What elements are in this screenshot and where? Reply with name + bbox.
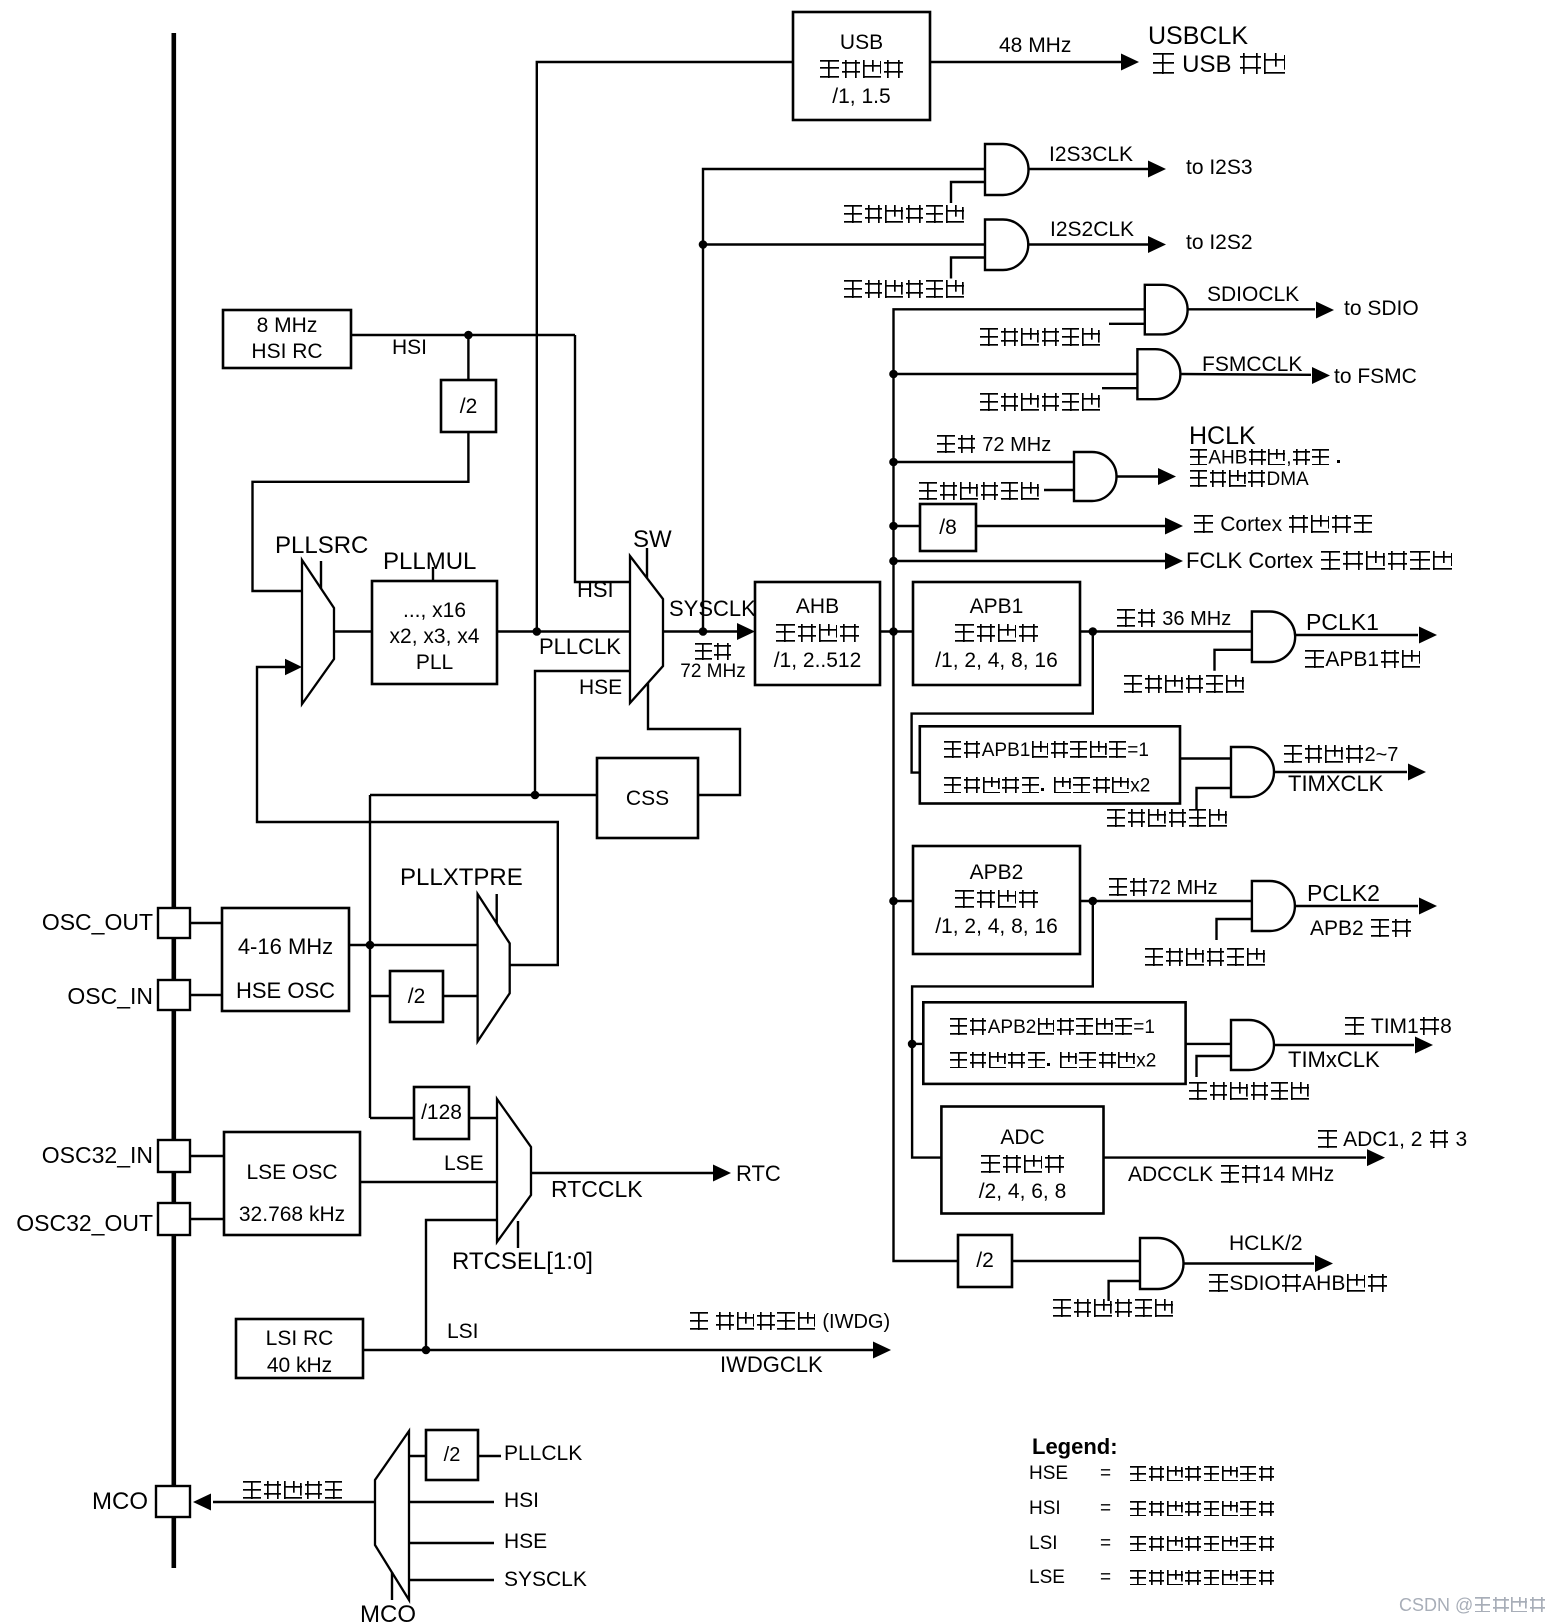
label: LSI RC box text: [236, 1325, 363, 1379]
node: HSE OSC output junction: [366, 941, 375, 950]
arrow: to ADC1 2 or 3: [1367, 1149, 1385, 1166]
label: ADC prescaler box text: [941, 1124, 1104, 1205]
label: peripheral clock enable I2S3: [843, 204, 965, 228]
wire: HSI down to SW mux: [575, 335, 630, 582]
label: PLL box text: [372, 598, 497, 676]
wire: stub into APB2 note box: [912, 1043, 923, 1045]
wire: MCO mux SYSCLK input: [409, 1579, 494, 1581]
box: ADC prescaler: [941, 1107, 1103, 1214]
wire: HCLK enable input: [1044, 489, 1074, 491]
label: max 72 MHz SYSCLK: [663, 642, 763, 664]
wire: HSE into SW mux: [535, 671, 630, 795]
wire: PCLK2 enable input: [1217, 919, 1252, 940]
node: APB2 note box junction: [908, 1040, 917, 1049]
label: PLLXTPRE: [400, 864, 523, 892]
arrow: SYSCLK into AHB prescaler: [737, 623, 755, 640]
wire: MCO select tick: [391, 1572, 393, 1600]
arrow: IWDGCLK to IWDG: [873, 1342, 891, 1359]
box: /2 divider SDIO AHB: [958, 1235, 1012, 1287]
wire: SDIO enable input: [1109, 323, 1145, 325]
wire: I2S2CLK output: [1029, 243, 1149, 245]
label: to TIM1 and 8: [1344, 1015, 1452, 1040]
wire: I2S3 enable input: [951, 182, 985, 203]
wire: TIMXCLK output: [1274, 771, 1407, 773]
pin: OSC_OUT: [158, 908, 190, 938]
wire: APB1 output to TIMXCLK note box: [912, 632, 1093, 773]
label: RTCSEL[1:0]: [452, 1248, 593, 1276]
label: HSE SW input: [579, 676, 622, 701]
arrow: USBCLK to USB interface: [1121, 54, 1139, 71]
label: MCO pin: [92, 1488, 148, 1516]
label: MCO mux select: [360, 1601, 416, 1622]
gate: PCLK2 enable AND: [1252, 881, 1295, 931]
box: APB1 frequency x2 note: [920, 726, 1180, 803]
label: to SDIO: [1344, 297, 1419, 322]
label: I2S3CLK: [1049, 143, 1133, 168]
node: HSE-CSS junction: [531, 791, 540, 800]
label: PCLK1: [1306, 609, 1379, 636]
wire: /2 to PLLCLK label: [478, 1455, 501, 1457]
label: OSC32_OUT: [16, 1210, 153, 1237]
label: to ADC1 2 or 3: [1317, 1128, 1467, 1153]
label: APB1 prescaler box text: [913, 593, 1080, 674]
label: PLLMUL: [383, 548, 476, 576]
mux: RTCSEL: [497, 1099, 531, 1242]
wire: PCLK2 output: [1295, 905, 1418, 907]
wire: APB1 note box to TIMXCLK gate: [1180, 757, 1231, 759]
wire: OSC32_OUT pin to LSE OSC: [190, 1218, 224, 1220]
label: AHB prescaler box text: [755, 593, 880, 674]
wire: I2S2 gate clock branch: [703, 243, 985, 245]
arrow: MCO output to pin: [193, 1494, 211, 1511]
label: /8 divider text: [920, 515, 976, 541]
label: Legend: [1032, 1434, 1118, 1460]
node: LSI junction: [422, 1346, 431, 1355]
wire: APB2 output down to note box and ADC prescaler: [912, 901, 1093, 1158]
gate: TIMXCLK APB1 timer enable AND: [1231, 747, 1274, 797]
box: /128 divider RTC: [414, 1087, 469, 1139]
label: HSI: [392, 336, 427, 361]
gate: SDIO AHB interface enable AND: [1140, 1238, 1184, 1289]
wire: RTCSEL select tick: [517, 1221, 519, 1248]
arrow: to I2S2: [1148, 236, 1166, 253]
wire: SYSCLK SW mux output to AHB prescaler: [663, 630, 740, 632]
wire: MCO mux HSI input: [409, 1501, 494, 1503]
label: /128 divider text: [414, 1100, 469, 1126]
node: FCLK branch junction: [889, 557, 898, 566]
mux: SW system clock switch: [630, 556, 663, 703]
box: APB2 prescaler: [913, 846, 1080, 954]
wire: PCLK1 enable input: [1215, 650, 1252, 671]
node: HSI junction to /2: [464, 331, 473, 340]
label: peripheral clock enable SDIO AHB: [1052, 1298, 1174, 1322]
wire: HSE branch to /2 PLLXTPRE divider: [370, 995, 390, 997]
wire: PLLMUL select tick: [432, 567, 434, 581]
label: peripheral clock enable FSMC: [979, 392, 1101, 416]
wire: TIMxCLK output: [1274, 1044, 1414, 1046]
label: peripheral clock enable SDIO: [979, 327, 1101, 351]
label: FSMCCLK: [1202, 353, 1302, 378]
wire: OSC_IN pin to HSE OSC: [190, 994, 222, 996]
label: peripheral clock enable HCLK: [918, 481, 1040, 505]
arrow: HCLK to AHB bus core memory DMA: [1158, 468, 1176, 485]
wire: PLLXTPRE mux output to PLLSRC mux: [257, 667, 558, 965]
wire: HCLK output: [1117, 475, 1158, 477]
gate: FSMC clock enable AND: [1137, 349, 1180, 399]
arrow: PCLK2 to APB2 peripherals: [1419, 898, 1437, 915]
wire: OSC_OUT pin to HSE OSC: [190, 922, 222, 924]
label: HSE MCO input: [504, 1530, 547, 1555]
label: HSI SW input: [577, 577, 614, 603]
label: CSDN watermark: [1399, 1595, 1547, 1616]
box: /8 divider Cortex systick: [920, 504, 976, 551]
wire: APB2 note box to TIMxCLK gate: [1186, 1043, 1231, 1045]
mux: PLLSRC: [302, 560, 334, 704]
arrow: RTCCLK to RTC: [713, 1165, 731, 1182]
label: OSC32_IN: [42, 1142, 153, 1169]
wire: HCLK gate clock: [894, 461, 1075, 463]
label: to IWDG: [689, 1311, 890, 1335]
box: USB prescaler: [793, 12, 930, 120]
wire: I2S2 enable input: [951, 258, 985, 279]
wire: /8 divider output to Cortex: [976, 525, 1165, 527]
wire: HCLK/2 output: [1183, 1262, 1314, 1264]
wire: LSI RC output to IWDG: [363, 1349, 873, 1351]
wire: HSE to CSS: [370, 794, 597, 796]
arrow: to FSMC: [1312, 367, 1330, 384]
label: LSI: [447, 1320, 479, 1345]
label: to I2S3: [1186, 156, 1253, 181]
wire: /2 divider to PLLXTPRE mux: [443, 995, 478, 997]
label: peripheral clock enable I2S2: [843, 279, 965, 303]
wire: /128 divider output to RTCSEL mux: [469, 1117, 497, 1119]
wire: /2 divider to SDIO AHB gate: [1012, 1260, 1140, 1262]
wire: HCLK distribution bus: [894, 309, 1145, 1261]
mux: MCO clock output mux: [375, 1431, 409, 1600]
box: LSE oscillator 32.768 kHz: [224, 1132, 360, 1235]
label: PLLSRC: [275, 532, 368, 560]
wire: LSI to RTCSEL mux: [426, 1220, 497, 1350]
wire: TIMxCLK enable input: [1197, 1056, 1232, 1077]
wire: OSC32_IN pin to LSE OSC: [190, 1155, 224, 1157]
label: 48 MHz: [999, 34, 1071, 59]
wire: APB2 output to PCLK2 gate: [1080, 900, 1252, 902]
box: APB2 frequency x2 note: [923, 1002, 1185, 1084]
box: /2 divider PLLXTPRE: [390, 971, 443, 1022]
wire: AHB prescaler to APB1 prescaler: [880, 630, 913, 632]
label: USB prescaler box text: [793, 29, 930, 110]
box: 8 MHz HSI RC oscillator: [223, 310, 351, 368]
wire: TIMXCLK enable input: [1197, 788, 1232, 809]
wire: RTCCLK output: [531, 1172, 713, 1174]
wire: HSE vertical from HSE OSC: [369, 795, 371, 1118]
label: ADCCLK max 14 MHz: [1128, 1163, 1334, 1188]
label: HCLK to AHB bus core memory and DMA: [1189, 422, 1256, 452]
label: LSE: [444, 1152, 484, 1177]
wire: PLLSRC select tick: [320, 561, 322, 589]
wire: LSE output to RTCSEL mux: [360, 1181, 497, 1183]
wire: HSI to /2 divider: [467, 335, 469, 380]
gate: TIMxCLK TIM1 TIM8 enable AND: [1231, 1020, 1274, 1070]
wire: ADC prescaler output: [1104, 1156, 1367, 1158]
node: PLLCLK junction to USB: [533, 627, 542, 636]
label: peripheral clock enable PCLK1: [1123, 674, 1245, 698]
wire: PLLCLK feed to USB prescaler: [537, 62, 793, 632]
label: APB1 note box text: [943, 740, 1149, 762]
label: PCLK2: [1307, 880, 1380, 907]
label: USBCLK to USB interface: [1148, 22, 1248, 52]
wire: SW mux to CSS link: [648, 683, 740, 795]
label: RTC: [736, 1161, 781, 1187]
wire: HSE branch to /128 divider: [370, 1117, 414, 1119]
label: max 72 MHz APB2: [1108, 877, 1218, 901]
box: /2 divider MCO PLLCLK: [426, 1430, 478, 1480]
node: I2S2 branch junction: [699, 240, 708, 249]
node: AHB output junction on bus: [889, 627, 898, 636]
label: to APB1 peripherals: [1304, 648, 1422, 673]
label: APB2 note box text: [949, 1017, 1155, 1039]
label: SW: [633, 526, 672, 554]
label: IWDGCLK: [720, 1352, 823, 1378]
arrow: to I2S3: [1148, 161, 1166, 178]
wire: USB prescaler output 48 MHz: [930, 61, 1121, 63]
label: FCLK Cortex free running clock: [1186, 548, 1454, 574]
label: TIMxCLK: [1288, 1047, 1380, 1073]
wire: PLLCLK PLL output to SW mux: [497, 630, 630, 632]
wire: SYSCLK feed to I2S gates: [703, 169, 985, 632]
label: I2S2CLK: [1050, 218, 1134, 243]
gate: I2S3 clock enable AND: [985, 144, 1029, 195]
arrow: to timers 2-7: [1408, 764, 1426, 781]
wire: SW select tick: [646, 548, 648, 578]
label: to FSMC: [1334, 365, 1417, 390]
gate: PCLK1 enable AND: [1252, 612, 1295, 663]
box: APB1 prescaler: [913, 582, 1080, 685]
label: APB2 prescaler box text: [913, 859, 1080, 940]
wire: HCLK to APB2 prescaler: [894, 900, 914, 902]
label: to timers 2~7 TIMXCLK: [1283, 744, 1398, 768]
label: to Cortex system timer: [1193, 513, 1374, 538]
label: CSS box text: [597, 786, 698, 812]
wire: APB1 output to PCLK1 gate: [1080, 630, 1252, 632]
label: /2 divider MCO text: [426, 1443, 478, 1468]
wire: HCLK to /8 divider: [894, 525, 921, 527]
wire: left device boundary bus: [172, 33, 177, 1568]
wire: HSI output of HSI RC: [351, 334, 575, 336]
label: SDIOCLK: [1207, 283, 1299, 308]
box: /2 divider HSI: [441, 380, 496, 432]
wire: SDIO AHB enable input: [1109, 1281, 1140, 1301]
wire: HSE OSC output: [349, 944, 478, 946]
arrow: to TIM1 and TIM8: [1415, 1037, 1433, 1054]
label: to I2S2: [1186, 231, 1253, 256]
wire: PLLSRC mux output to PLL: [334, 630, 372, 632]
wire: MCO output line: [213, 1501, 375, 1503]
label: max 72 MHz AHB: [936, 434, 1051, 458]
label: OSC_OUT: [42, 909, 153, 936]
node: SYSCLK junction: [699, 627, 708, 636]
wire: MCO mux HSE input: [409, 1542, 494, 1544]
label: PLLCLK SW input: [539, 634, 621, 660]
gate: SDIO clock enable AND: [1145, 285, 1188, 335]
wire: I2S3CLK output: [1029, 168, 1149, 170]
label: SYSCLK: [669, 596, 756, 622]
label: 8 MHz HSI RC box text: [223, 313, 351, 365]
box: 4-16 MHz HSE oscillator: [222, 908, 349, 1011]
arrow: HCLK/2 to SDIO AHB interface: [1315, 1255, 1333, 1272]
arrow: PCLK1 to APB1 peripherals: [1419, 627, 1437, 644]
mux: PLLXTPRE: [478, 894, 510, 1041]
label: SYSCLK MCO input: [504, 1568, 587, 1593]
label: /2 divider HSI text: [441, 394, 496, 420]
box: CSS clock security system: [597, 758, 698, 838]
label: OSC_IN: [67, 983, 153, 1010]
pin: OSC32_IN: [158, 1140, 190, 1172]
label: /2 divider SDIO text: [958, 1248, 1012, 1274]
label: APB2 peripherals: [1310, 917, 1412, 942]
node: APB2 output junction: [1089, 897, 1098, 906]
label: 4-16 MHz HSE OSC box text: [222, 925, 349, 1013]
wire: FSMCCLK output: [1180, 373, 1311, 376]
label: LSE OSC box text: [224, 1152, 360, 1236]
gate: I2S2 clock enable AND: [985, 220, 1028, 271]
arrow: PLLSRC HSE input: [285, 659, 302, 675]
label: HCLK/2: [1229, 1232, 1303, 1257]
wire: FSMC enable input: [1102, 387, 1137, 389]
wire: SDIOCLK output: [1188, 308, 1315, 310]
wire: PLLXTPRE select tick: [496, 894, 498, 923]
wire: PCLK1 output: [1295, 634, 1418, 636]
label: main clock output: [242, 1480, 344, 1504]
pin: OSC32_OUT: [158, 1203, 190, 1235]
node: APB2 branch junction: [889, 897, 898, 906]
label: to SDIO AHB interface: [1208, 1272, 1388, 1297]
pin: MCO: [156, 1486, 190, 1517]
label: max 36 MHz: [1116, 608, 1231, 632]
pin: OSC_IN: [158, 980, 190, 1010]
label: peripheral clock enable PCLK2: [1144, 947, 1266, 971]
label: HSI MCO input: [504, 1489, 539, 1514]
arrow: to SDIO: [1316, 302, 1334, 319]
label: peripheral clock enable TIMXCLK: [1106, 808, 1228, 832]
label: /2 divider PLLXTPRE text: [390, 984, 443, 1010]
arrow: FCLK Cortex: [1165, 553, 1183, 570]
box: AHB prescaler: [755, 582, 880, 685]
wire: /2 divider output to PLLSRC mux: [253, 432, 469, 591]
wire: MCO mux PLLCLK/2 input: [409, 1455, 426, 1457]
arrow: to Cortex system timer: [1165, 518, 1183, 535]
node: FSMC branch junction: [889, 370, 898, 379]
wire: FCLK Cortex line: [894, 560, 1166, 562]
node: HCLK gate branch junction: [889, 458, 898, 467]
box: LSI RC oscillator 40 kHz: [236, 1319, 363, 1378]
wire: FSMC gate clock: [894, 373, 1138, 375]
node: /8 branch junction: [889, 522, 898, 531]
label: RTCCLK: [551, 1176, 643, 1203]
label: peripheral clock enable TIMxCLK: [1188, 1081, 1310, 1105]
label: PLLCLK MCO input: [504, 1442, 582, 1467]
gate: HCLK enable AND: [1074, 452, 1117, 501]
box: PLL multiplier PLLMUL: [372, 581, 497, 684]
node: APB1 output junction: [1089, 627, 1098, 636]
